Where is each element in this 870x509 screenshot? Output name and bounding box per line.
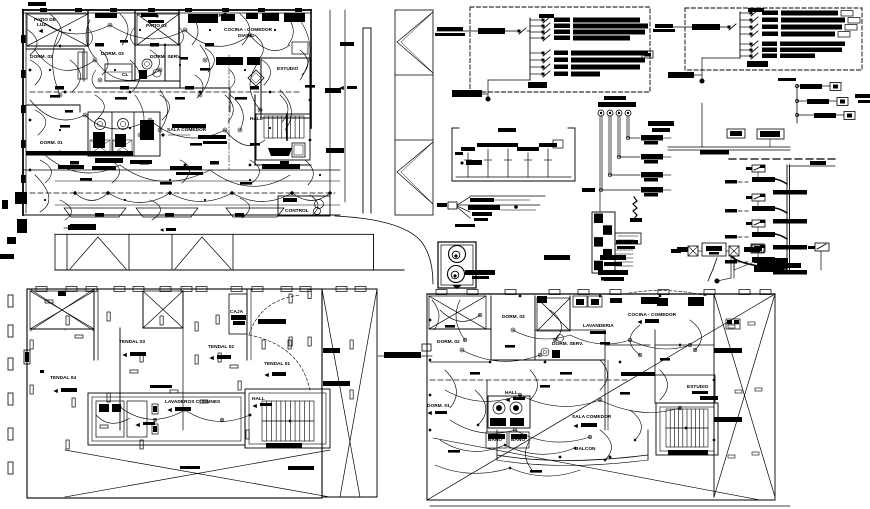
outer wall right [310, 10, 312, 128]
wire arc [205, 48, 214, 72]
ground tap [487, 149, 489, 177]
top dashed feeder [700, 150, 729, 155]
bath block [88, 112, 160, 156]
riser to panel [599, 190, 601, 212]
wire arc [630, 325, 640, 355]
sala furniture [58, 165, 84, 169]
wash posts [152, 404, 158, 414]
big diagonal [427, 294, 775, 500]
wire arc [305, 160, 313, 185]
left outside door marks [8, 295, 13, 307]
branch circuit [530, 59, 542, 61]
wire arc [462, 350, 540, 361]
svg-text:DORM. SERV.: DORM. SERV. [150, 54, 181, 60]
wire arc [135, 95, 144, 135]
meter [625, 110, 631, 116]
svg-text:DORM. 01: DORM. 01 [40, 140, 63, 146]
wire arc [280, 90, 291, 130]
svg-text:DORM. 02: DORM. 02 [30, 54, 53, 60]
door swing arcs [88, 28, 93, 46]
balcon [497, 455, 648, 461]
dorm03 [490, 296, 492, 360]
chevron 1 [70, 237, 98, 269]
wire arc [240, 14, 250, 45]
kitchen counter blacks [95, 13, 117, 18]
svg-text:COCINA - COMEDOR: COCINA - COMEDOR [628, 312, 677, 318]
meter connection box [744, 247, 760, 252]
wire arc [515, 430, 590, 442]
wire arc [100, 50, 108, 75]
wire arc [45, 155, 120, 173]
right open bay X [322, 288, 377, 290]
street corner outer curve [335, 216, 433, 284]
wire arc [120, 165, 210, 181]
pasa bar label [40, 370, 44, 373]
ground tap [527, 153, 529, 177]
walls mid [569, 296, 571, 330]
small label bars tl [50, 95, 60, 98]
link feeder between plans [384, 352, 421, 358]
ground drop [488, 79, 530, 81]
toilet fixtures [95, 119, 106, 130]
svg-text:ESTUDIO: ESTUDIO [277, 66, 299, 72]
branch circuit [740, 33, 750, 35]
porch trapezoids [64, 208, 126, 217]
wire arc [690, 320, 701, 350]
single-line diagram panel 1 [435, 7, 653, 101]
patio de luz hatched [27, 14, 88, 46]
wire arc [432, 300, 439, 330]
porch line2 [55, 204, 340, 206]
kitchen counters [641, 297, 659, 304]
svg-text:LAVANDERIA: LAVANDERIA [583, 323, 614, 329]
branch circuit [740, 19, 750, 21]
dashed circuit [430, 379, 630, 381]
strip labels [68, 225, 96, 230]
wire arc [570, 335, 630, 344]
svg-text:COCINA - COMEDOR: COCINA - COMEDOR [224, 27, 273, 33]
branch circuit [530, 31, 542, 33]
label bars on corridor [340, 42, 354, 46]
xbox mid [537, 298, 570, 331]
wire arc [35, 110, 46, 135]
ladder circuit unit [746, 222, 752, 225]
sub feeder taps [778, 78, 870, 123]
wire arc [445, 390, 520, 401]
first floor plan [0, 2, 340, 259]
patio03 hatched [137, 14, 179, 45]
wire arc [240, 198, 250, 218]
stair arrows [262, 420, 314, 422]
branch circuit [740, 49, 750, 51]
wire arc [150, 120, 225, 138]
meter [598, 110, 604, 116]
svg-text:DORM. 03: DORM. 03 [502, 314, 525, 320]
lavadero tubs [96, 401, 124, 437]
wire arc [435, 465, 510, 473]
wire arc [513, 330, 570, 339]
wire arc [225, 130, 265, 146]
wall sala [604, 360, 606, 430]
wire arc [35, 50, 95, 70]
wire arc [160, 95, 170, 120]
wire arc [50, 14, 61, 46]
wire arc [280, 95, 288, 122]
wire arc [120, 14, 128, 45]
scattered marks right open [728, 325, 735, 328]
wire arc [190, 14, 198, 45]
spare box [642, 51, 653, 58]
second floor plan [427, 290, 790, 507]
ground tap [507, 149, 509, 177]
svg-text:CAJA: CAJA [230, 309, 244, 315]
svg-text:DORM. 01: DORM. 01 [427, 403, 450, 409]
top tabs [436, 290, 447, 295]
wire arc [550, 310, 561, 340]
single-line diagram panel 2 [653, 8, 862, 83]
ladder circuit unit [746, 247, 752, 250]
scatter dots tl [69, 29, 71, 31]
center bath block [488, 396, 530, 428]
black bar pair [600, 255, 626, 260]
wire arc [262, 60, 271, 85]
riser line [608, 116, 610, 175]
wire arc [40, 20, 110, 34]
dashed circuit corridor [30, 91, 300, 93]
left exterior blacks [15, 192, 27, 204]
xbox A [30, 291, 94, 329]
svg-text:TENDAL 04: TENDAL 04 [50, 375, 76, 381]
branch circuit [740, 26, 750, 28]
top wall tabs [36, 287, 47, 292]
outer box [427, 293, 775, 295]
dorm02 walls [26, 48, 84, 50]
black bars on right wall [714, 348, 742, 353]
bottom junction complex [731, 256, 787, 269]
wire arc [150, 200, 161, 220]
wire arc [440, 440, 505, 451]
svg-text:LUZ: LUZ [37, 22, 46, 28]
upper links [668, 146, 790, 148]
estudio [655, 375, 715, 403]
wire arc [530, 370, 538, 400]
riser line [626, 116, 628, 138]
wire arc [195, 75, 203, 98]
dashed porch circuit [30, 192, 335, 194]
svg-text:CL: CL [122, 72, 128, 78]
wire arc [85, 115, 150, 129]
riser line [599, 116, 601, 190]
roof strip [55, 233, 374, 235]
bath lower labels [90, 140, 110, 154]
dorm02 [429, 328, 491, 330]
chevron 2 [175, 237, 202, 269]
balcony/porch lines [23, 169, 340, 171]
wire arc [30, 100, 85, 120]
wire arc [35, 175, 49, 212]
wall tick bars [40, 8, 47, 12]
lamp symbols tl [93, 58, 97, 62]
vertical bus double [786, 165, 788, 270]
tap row [795, 113, 798, 116]
wire arc [200, 45, 210, 95]
bottom slab line [23, 214, 340, 216]
wire arc [225, 95, 233, 122]
hall stairs bl [245, 389, 330, 448]
svg-text:HALL: HALL [505, 390, 518, 396]
wire arc [70, 60, 81, 92]
wire arc [520, 395, 600, 406]
wire arc [30, 60, 41, 85]
porch diamonds row [73, 191, 77, 195]
roof terrace plan (tendales) [8, 287, 377, 499]
hatch marks [397, 12, 433, 42]
junction symbols row [544, 240, 801, 283]
wire arc [250, 35, 290, 51]
outer wall left [22, 10, 24, 215]
wire arc [475, 390, 486, 425]
svg-text:TENDAL 01: TENDAL 01 [264, 361, 290, 367]
branch circuit [740, 43, 750, 45]
wire arc [95, 60, 160, 80]
wire arc [445, 370, 456, 408]
svg-text:PATIO 03: PATIO 03 [146, 23, 167, 29]
tap row [795, 84, 798, 87]
wire arc [525, 440, 532, 470]
bath mid fixtures [142, 59, 152, 69]
wire arc [255, 35, 263, 60]
svg-text:HALL: HALL [250, 116, 263, 122]
wire arc [505, 445, 575, 454]
meter bank [598, 96, 636, 116]
wire arc [28, 30, 37, 55]
wire arc [53, 30, 61, 95]
wire arc [630, 340, 690, 349]
ground tap [467, 153, 469, 177]
stairs hall tl [256, 114, 310, 160]
svg-text:LAVADEROS COMUNES: LAVADEROS COMUNES [165, 399, 221, 405]
wire arc [110, 160, 120, 183]
wire arc [250, 160, 260, 183]
kl labels [339, 86, 343, 90]
grounding bus detail [452, 128, 575, 181]
svg-text:TENDAL 03: TENDAL 03 [119, 339, 145, 345]
wire arc [230, 95, 243, 130]
wire arc [600, 400, 680, 413]
corridor wall y88 [96, 87, 230, 89]
bath smalls [541, 348, 549, 356]
hall wall [254, 95, 256, 165]
posts [66, 316, 69, 325]
wire arc [285, 14, 293, 45]
banos [486, 432, 507, 448]
wire arc [86, 20, 95, 58]
ladder circuit unit [746, 167, 752, 170]
site strip right of plan [55, 10, 433, 284]
wire arc [630, 410, 641, 440]
branch circuit [530, 52, 542, 54]
wall right block [654, 330, 656, 375]
wire arc [310, 195, 318, 215]
branch circuit [740, 12, 750, 14]
right open X [713, 294, 715, 497]
xbox B [143, 291, 183, 328]
detail bubble square [438, 242, 495, 289]
roof label bars [150, 385, 172, 388]
wire arc [130, 60, 140, 92]
outlet diamonds tl [28, 68, 32, 72]
wire arc [185, 30, 250, 46]
riser line [617, 116, 619, 157]
wire arc [660, 370, 668, 400]
right circuit ladder [648, 103, 835, 281]
panel side lines [615, 249, 633, 251]
stair box room [229, 294, 247, 334]
wire arc [300, 50, 308, 75]
tablero general panel [592, 197, 642, 273]
wire arc [600, 360, 608, 390]
control room [278, 196, 330, 216]
bath mid walls [134, 45, 136, 81]
tap row [795, 99, 798, 102]
column centerline dashdot [228, 55, 230, 170]
ladder circuit unit [746, 196, 752, 199]
wire arc [110, 25, 185, 39]
wire arc [510, 468, 580, 476]
big flat X bottom [65, 450, 330, 497]
wall patio03 sides [134, 10, 136, 45]
svg-text:CONTROL: CONTROL [285, 208, 309, 214]
wire arc [40, 160, 51, 183]
feeder bars [437, 27, 463, 31]
interior walls [93, 289, 95, 360]
svg-text:TENDAL 02: TENDAL 02 [208, 344, 234, 350]
svg-text:DORM. 02: DORM. 02 [437, 339, 460, 345]
wire arc [160, 90, 168, 130]
svg-text:SALA COMEDOR: SALA COMEDOR [572, 414, 612, 420]
property vertical lines [329, 10, 331, 200]
wire arcs bl [120, 407, 185, 419]
bus [529, 18, 531, 80]
wire arc [250, 60, 260, 110]
meter [616, 110, 622, 116]
dorm01 bottom wall poche [26, 151, 133, 156]
wire arc [210, 170, 290, 186]
wire arc [440, 310, 480, 321]
wire arc [456, 300, 465, 340]
dashed arc to stairs [249, 335, 310, 390]
cable detail [437, 196, 545, 227]
ground tap [547, 149, 549, 177]
branch circuit [740, 55, 750, 57]
wire arc [450, 420, 515, 433]
branch circuit [530, 66, 542, 68]
branch circuit [530, 25, 542, 27]
stairs br [656, 403, 718, 455]
long diagonals over tendal [30, 289, 94, 331]
xbox left [429, 296, 486, 329]
branch circuit [530, 73, 542, 75]
estudio diamond column [248, 70, 264, 86]
wire arc [300, 20, 310, 80]
outer walls [27, 289, 322, 498]
meter [607, 110, 613, 116]
wall dorm02 top [87, 10, 89, 46]
svg-text:ESTUDIO: ESTUDIO [687, 384, 709, 390]
right roof hatch boxes [395, 10, 433, 215]
branch circuit [530, 37, 542, 39]
main breaker [519, 28, 526, 34]
corridor double wall [362, 28, 364, 213]
wall sala top [229, 88, 231, 112]
lavaderos block [88, 393, 245, 445]
wire arc [60, 200, 71, 220]
svg-text:BALCON: BALCON [575, 446, 596, 452]
branch circuit [530, 19, 542, 21]
dorm02 closet [78, 52, 87, 79]
wire arc [180, 160, 190, 183]
splice jag [633, 197, 637, 219]
ground drop 2 [702, 57, 740, 59]
strip dividers [66, 234, 68, 270]
kitchen lower counters [216, 57, 243, 65]
dorm01 walls [26, 104, 80, 106]
svg-text:DORM. SERV.: DORM. SERV. [552, 341, 583, 347]
outer wall top [23, 9, 311, 11]
porch arcs [75, 193, 108, 201]
closet cl [105, 64, 132, 81]
wire arc [150, 50, 160, 75]
right breaker drop [808, 246, 815, 249]
wire arc [95, 95, 104, 118]
central riser diagram [582, 116, 671, 212]
wire arc [600, 430, 611, 460]
